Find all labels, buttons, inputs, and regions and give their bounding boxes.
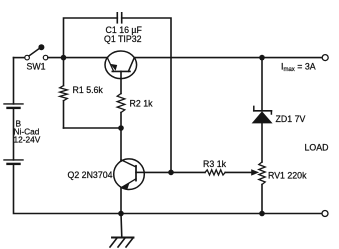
wire zener to RV1: [261, 123, 263, 162]
wire node B to Q2 collector: [120, 128, 122, 161]
svg-text:RV1 220k: RV1 220k: [268, 170, 307, 180]
resistor R2: [117, 94, 125, 129]
node A junction: [61, 55, 67, 61]
wire R1 bottom to node B: [64, 127, 122, 129]
svg-text:LOAD: LOAD: [305, 143, 329, 153]
node D junction (Q2 base / R3 / C1): [168, 170, 174, 176]
ground: [110, 214, 134, 248]
svg-text:R2 1k: R2 1k: [130, 99, 154, 109]
resistor R1: [60, 58, 68, 128]
potentiometer RV1: [259, 162, 265, 214]
wire ground rail right segment: [121, 213, 322, 215]
node E junction (emitter to ground rail): [118, 211, 124, 217]
transistor Q1: [105, 51, 137, 79]
wire node D to R3: [171, 171, 205, 173]
svg-text:R1 5.6k: R1 5.6k: [73, 85, 104, 95]
node B junction: [118, 125, 124, 131]
svg-text:ZD1 7V: ZD1 7V: [276, 114, 306, 124]
wire Q1 collector to output rail: [134, 57, 322, 59]
battery B cell 2: [4, 160, 23, 164]
wire node A to Q1 emitter: [64, 57, 108, 59]
svg-text:SW1: SW1: [27, 61, 46, 71]
node C junction (zener tap): [259, 55, 265, 61]
wire top rail right segment: [122, 18, 171, 170]
node F junction (RV1 to ground rail): [259, 211, 265, 217]
resistor R3: [205, 170, 225, 175]
svg-text:Q1 TIP32: Q1 TIP32: [104, 34, 142, 44]
wire Q2 emitter to ground rail: [120, 188, 122, 214]
wire R3 to RV1 wiper arrow: [225, 169, 259, 175]
wire battery to switch: [14, 57, 25, 59]
switch SW1: [25, 44, 48, 60]
wire Q1 base to R2: [120, 79, 122, 94]
terminal output positive: [322, 55, 328, 61]
svg-text:Q2 2N3704: Q2 2N3704: [68, 170, 113, 180]
svg-text:R3 1k: R3 1k: [203, 159, 227, 169]
wire top rail left segment: [64, 18, 118, 58]
wire Q2 base to node D: [144, 171, 171, 173]
wire switch to node A: [48, 57, 64, 59]
battery B top lead wire: [13, 58, 15, 104]
terminal output negative: [322, 211, 328, 217]
battery B cell 1: [4, 104, 23, 108]
wire node C to zener: [261, 58, 263, 111]
zener diode ZD1: [252, 106, 273, 123]
transistor Q2: [114, 159, 145, 190]
wire between battery cells: [13, 108, 15, 160]
wire battery bottom to ground rail: [14, 164, 122, 214]
capacitor C1: [117, 13, 121, 23]
svg-text:12-24V: 12-24V: [14, 135, 41, 145]
